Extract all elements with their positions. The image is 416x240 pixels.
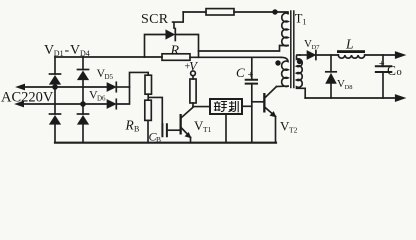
diode VD5 <box>107 83 116 92</box>
svg-text:D7: D7 <box>312 44 321 51</box>
AC source arrow lower <box>15 101 24 107</box>
capacitor Co <box>382 55 384 98</box>
svg-text:D6: D6 <box>97 95 106 103</box>
wire SCR gate to top feedback wire <box>173 12 184 28</box>
node polarity dot top wire <box>272 9 277 14</box>
svg-text:T2: T2 <box>289 126 298 135</box>
wire C branch vertical <box>251 57 253 142</box>
svg-text:V: V <box>44 43 54 58</box>
svg-text:V: V <box>189 60 198 74</box>
wire rail1 node X to primary <box>199 46 289 52</box>
svg-text:B: B <box>134 125 139 134</box>
diode VD3 <box>50 113 61 115</box>
svg-text:AC220V: AC220V <box>1 90 54 106</box>
AC source arrow upper <box>16 84 25 90</box>
svg-text:R: R <box>125 118 135 133</box>
wire top feedback line <box>183 12 288 14</box>
wire feedback winding to VT2 collector <box>277 85 289 87</box>
wire VD6 cathode join <box>117 72 148 104</box>
wire VT1 emitter to rail <box>190 137 192 142</box>
thyristor SCR <box>166 30 175 39</box>
capacitor CB <box>162 124 167 136</box>
wire VD5 cathode <box>117 86 130 88</box>
transistor VT1 <box>180 114 182 135</box>
diode VD6 <box>107 100 116 109</box>
wire driver ground <box>225 114 227 143</box>
transformer T1 primary winding <box>282 13 288 46</box>
wire bottom rail <box>55 142 276 144</box>
wire SCR cathode <box>176 35 198 58</box>
inductor L <box>337 50 365 53</box>
svg-text:o: o <box>397 67 402 78</box>
resistor trigger (unlabeled, top) <box>206 9 234 15</box>
svg-text:-: - <box>65 43 70 58</box>
svg-text:L: L <box>345 37 354 52</box>
output arrow top <box>395 52 405 59</box>
wire upper AC line <box>24 86 107 88</box>
wire secondary top to VD7 <box>300 54 307 56</box>
wire RB to bottom rail <box>147 120 149 142</box>
transformer T1 secondary winding <box>297 55 306 98</box>
wire VD7 to L <box>317 54 339 56</box>
wire +V to collector resistor <box>192 76 194 79</box>
wire CB to VT1 base <box>168 129 180 131</box>
resistor RB <box>145 100 152 120</box>
diode VD1 <box>50 73 61 75</box>
output arrow bottom <box>395 95 405 102</box>
svg-text:B: B <box>156 135 161 144</box>
svg-text:D4: D4 <box>80 49 90 58</box>
svg-text:SCR: SCR <box>141 12 169 27</box>
transformer T1 feedback winding <box>281 57 288 86</box>
wire lower AC line <box>23 103 107 105</box>
diode VD2 <box>78 69 89 71</box>
node junction upper AC / left leg <box>52 84 58 90</box>
transistor VT2 <box>263 93 265 113</box>
wire junction below startup resistor <box>148 94 162 124</box>
terminal +V <box>191 71 196 76</box>
svg-text:+: + <box>379 59 385 70</box>
svg-text:T1: T1 <box>203 125 212 134</box>
resistor collector load (unlabeled) <box>190 79 196 103</box>
svg-text:D8: D8 <box>345 84 353 91</box>
svg-text:D1: D1 <box>54 49 64 58</box>
wire right bridge leg <box>82 57 84 143</box>
wire VT2 base <box>252 101 264 103</box>
svg-text:1: 1 <box>303 18 307 27</box>
wire R right to node X <box>190 56 281 58</box>
wire output bottom line <box>305 97 395 99</box>
node polarity dot feedback winding <box>275 60 280 65</box>
wire VT2 emitter to rail <box>275 117 277 143</box>
svg-text:C: C <box>236 65 245 80</box>
wire left bridge leg <box>54 57 56 143</box>
transformer core <box>291 11 294 88</box>
wire driver input <box>193 106 210 108</box>
wire L to output <box>365 54 395 56</box>
svg-text:R: R <box>170 44 180 59</box>
svg-text:V: V <box>70 43 80 58</box>
node polarity dot secondary winding <box>297 59 302 64</box>
wire SCR anode riser <box>145 35 166 58</box>
node junction lower AC / right leg <box>80 101 86 107</box>
diode VD8 <box>330 55 332 72</box>
svg-text:+: + <box>248 70 254 81</box>
wire resistor to VT1 collector node <box>192 103 194 107</box>
svg-text:D5: D5 <box>105 73 114 81</box>
resistor startup (unlabeled, vertical) <box>145 75 152 94</box>
wire driver output <box>242 105 252 107</box>
svg-text:C: C <box>387 63 396 78</box>
diode VD7 <box>307 51 316 60</box>
block driver (qu dong) <box>210 99 242 114</box>
resistor R <box>162 54 190 61</box>
capacitor C <box>246 80 257 84</box>
diode VD4 <box>78 113 89 115</box>
wire bridge top rail <box>55 56 162 58</box>
